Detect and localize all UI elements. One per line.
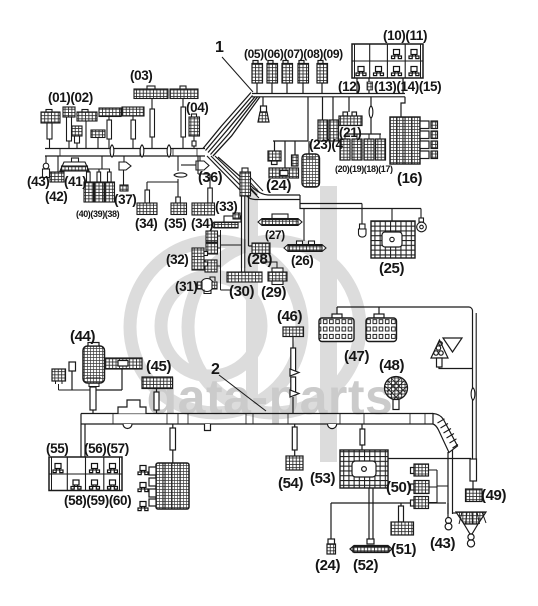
svg-text:(12): (12) (338, 79, 360, 94)
wire (46) drop (290, 337, 299, 414)
wire (28) to (29) (261, 254, 277, 269)
wire bus to (24) group (273, 97, 309, 168)
svg-text:(53): (53) (310, 470, 335, 487)
connector block D (72, 126, 82, 149)
svg-text:(50): (50) (386, 479, 411, 496)
watermark d stem (246, 188, 258, 416)
triangle warning cluster (431, 338, 473, 369)
relay (44) (83, 343, 105, 387)
svg-text:(37): (37) (114, 192, 136, 207)
connector (18) (364, 139, 374, 160)
leads (40)(39)(38) (87, 172, 112, 182)
wires mid cluster (217, 230, 242, 290)
connector (51) (391, 522, 414, 535)
svg-text:data-parts: data-parts (147, 369, 394, 425)
main trunk lower (floor harness) (81, 414, 433, 425)
wire bus to (20)-(17) group (345, 97, 381, 134)
connector (17) (376, 139, 386, 160)
connector (46) (283, 327, 304, 337)
connector (30) (227, 268, 262, 282)
drop to (25) (391, 209, 393, 222)
connector G1 (206, 231, 218, 242)
top bus (252, 94, 405, 97)
connector (24) bottom (327, 539, 336, 554)
connector (23) right (329, 120, 339, 141)
connector (36) arrow (181, 156, 209, 170)
connector block B (63, 107, 75, 149)
connector (24) bar (269, 168, 299, 178)
lead (34) second (208, 188, 213, 203)
connector (26) (284, 209, 326, 252)
connector (34) first (137, 203, 157, 215)
connector bar below (33) (211, 216, 241, 228)
ring terminal (43) (43, 156, 50, 178)
hline mid right (388, 458, 471, 460)
stepped bump on trunk (118, 400, 146, 414)
wire to (34) first (147, 182, 178, 190)
svg-text:(43): (43) (430, 535, 455, 552)
svg-text:(40)(39)(38): (40)(39)(38) (76, 209, 120, 219)
trunk right end bend (433, 414, 458, 453)
connector (41) (60, 158, 89, 171)
svg-text:(35): (35) (164, 216, 186, 231)
connector (28) (252, 243, 270, 254)
lead from (03) left (150, 99, 155, 149)
svg-text:(51): (51) (391, 541, 416, 558)
connector (38) (105, 182, 115, 202)
wire pair down to (30) (242, 196, 245, 268)
lead from (03) right (181, 99, 186, 149)
svg-text:(03): (03) (130, 68, 152, 83)
svg-text:(27): (27) (265, 228, 285, 242)
component (53) (340, 424, 388, 488)
svg-text:(05)(06)(07)(08)(09): (05)(06)(07)(08)(09) (244, 47, 343, 61)
fan connector (43) bottom (453, 512, 487, 547)
connector bar F (99, 108, 121, 149)
connector (32) (192, 248, 208, 270)
box to bus wires (357, 78, 403, 94)
connector at 263 (258, 106, 269, 122)
connector (52) (350, 539, 392, 553)
main trunk upper (engine harness) (45, 149, 205, 157)
clip on right run (471, 388, 475, 400)
connector (03) bars (134, 86, 198, 99)
lead (34) first (145, 190, 150, 203)
clip on wire (369, 106, 373, 118)
connector (45) (142, 377, 173, 414)
wires bus to (23) pair (323, 97, 334, 120)
fuse box (55)-(60) (49, 457, 122, 491)
svg-text:(33): (33) (215, 199, 237, 214)
connectors (05)-(09) (252, 61, 328, 94)
connector (49) (466, 489, 483, 502)
lead (54) (292, 427, 297, 450)
fuse relay box (10)-(15) (352, 44, 423, 78)
connector (01) area block A (41, 110, 60, 149)
svg-text:(28): (28) (247, 251, 272, 268)
connector (33) vertical (240, 168, 251, 196)
ECU connector (16) (390, 117, 438, 164)
ring terminal (417, 218, 427, 232)
connector (27) (258, 214, 302, 226)
clip on trunk (167, 145, 171, 157)
connector block C (77, 110, 97, 149)
trunk left elbow down (81, 414, 85, 458)
svg-text:(20)(19)(18)(17): (20)(19)(18)(17) (335, 164, 393, 174)
svg-text:(26): (26) (291, 253, 313, 268)
svg-text:(24): (24) (315, 557, 340, 574)
svg-text:(52): (52) (353, 557, 378, 574)
svg-text:(24): (24) (266, 177, 291, 194)
connector G3 (205, 260, 217, 272)
connector (47) left (319, 307, 354, 342)
svg-text:(30): (30) (229, 283, 254, 300)
connector (42) (50, 156, 64, 182)
svg-text:(44): (44) (70, 328, 95, 345)
connector bar right of (44) (105, 358, 142, 369)
connector (04) (189, 114, 200, 149)
connector (21) (339, 112, 362, 126)
connector (34) second (192, 203, 215, 215)
svg-text:(49): (49) (481, 487, 506, 504)
svg-text:(01)(02): (01)(02) (48, 90, 93, 105)
drop to ring (420, 209, 422, 219)
svg-text:(46): (46) (277, 308, 302, 325)
drop to bullet (361, 204, 363, 225)
wire (24) (51) bottom (331, 503, 446, 539)
svg-text:2: 2 (211, 361, 220, 378)
wire pair (53) to (52) (369, 488, 373, 543)
bundle curve to top bus (203, 93, 260, 157)
connector (19) (352, 139, 362, 160)
bundle diagonal lower right (207, 156, 252, 199)
bullet connector (359, 224, 367, 237)
svg-text:(34): (34) (135, 216, 157, 231)
svg-text:(54): (54) (278, 475, 303, 492)
watermark p stem (320, 186, 337, 462)
svg-text:(21): (21) (339, 125, 361, 140)
connector small 2x3 (268, 151, 281, 165)
strainer (48) (385, 377, 408, 410)
svg-text:(36): (36) (198, 170, 223, 186)
tall connector block (149, 463, 189, 509)
watermark dp logo ring left (130, 241, 360, 413)
small connector left of (44) (52, 369, 90, 390)
connector bar G (122, 107, 144, 149)
svg-text:(47): (47) (344, 348, 369, 365)
wire single to (28) (249, 196, 253, 246)
clip on (35) wire (174, 173, 187, 177)
svg-text:(34): (34) (191, 216, 213, 231)
svg-text:(10)(11): (10)(11) (383, 28, 427, 43)
connector (40) (84, 182, 94, 202)
lead below (44) (90, 387, 96, 414)
wire pair from bend down (448, 450, 453, 514)
connector (37) arrow (119, 156, 131, 191)
clip on trunk (140, 145, 144, 157)
svg-text:(41): (41) (64, 174, 86, 189)
connector (47) right (366, 307, 397, 342)
tick below trunk (205, 424, 211, 431)
relay icons column (138, 466, 148, 511)
svg-text:(56)(57): (56)(57) (84, 441, 129, 456)
connector (31) (197, 277, 217, 294)
component (25) grid block (371, 221, 415, 258)
svg-text:(48): (48) (379, 357, 404, 374)
connector small vertical (292, 155, 299, 166)
lead trunk to tall block (170, 424, 176, 463)
connector G2 (206, 243, 218, 254)
wire trunk to (35) (177, 156, 179, 197)
lead (51) (399, 506, 404, 522)
svg-text:(55): (55) (46, 441, 68, 456)
leads (20)-(17) (345, 134, 380, 139)
connector (20) (340, 139, 350, 160)
semicircle bump below trunk (123, 424, 132, 429)
leader line 2 (219, 375, 266, 411)
connector block E (91, 130, 105, 149)
leader line 1 (222, 57, 253, 92)
wire bus to (16) (401, 97, 405, 117)
connector (29) socket (268, 268, 287, 285)
tiny connector under (12) (367, 82, 373, 90)
relay near (24) (302, 154, 320, 187)
lead to (49) (470, 459, 477, 489)
wires to (40)(39)(38) (89, 156, 111, 172)
wire trunk to (54) (294, 424, 296, 456)
wire bus down at 263 (262, 97, 264, 106)
connector (39) (95, 182, 105, 202)
connector (54) (286, 456, 303, 470)
svg-text:(42): (42) (45, 189, 67, 204)
svg-text:(04): (04) (186, 100, 208, 115)
harness path to (25) (250, 187, 421, 209)
connector (23) left (318, 120, 328, 141)
svg-text:(13)(14)(15): (13)(14)(15) (374, 79, 441, 94)
svg-text:(25): (25) (379, 260, 404, 277)
lug on wire pair (233, 213, 240, 219)
svg-text:(58)(59)(60): (58)(59)(60) (64, 493, 131, 508)
svg-text:(31): (31) (175, 279, 197, 294)
bullet terminal small (445, 503, 452, 530)
taped wrap on bundle (241, 176, 263, 198)
wire to (34) second (198, 156, 210, 188)
svg-text:(45): (45) (146, 358, 171, 375)
connector cluster (50) (411, 464, 449, 509)
svg-text:(29): (29) (261, 284, 286, 301)
wire top run (337, 307, 473, 459)
wire bus to (21) (348, 97, 350, 112)
svg-text:1: 1 (215, 39, 224, 56)
svg-text:(32): (32) (166, 252, 188, 267)
single terminal (69, 362, 76, 390)
wire from bar down (96, 369, 122, 390)
lead (35) (176, 197, 181, 203)
svg-text:(43): (43) (27, 174, 49, 189)
connector (35) (171, 203, 187, 215)
svg-text:(16): (16) (397, 170, 422, 187)
clip on trunk (110, 145, 114, 157)
